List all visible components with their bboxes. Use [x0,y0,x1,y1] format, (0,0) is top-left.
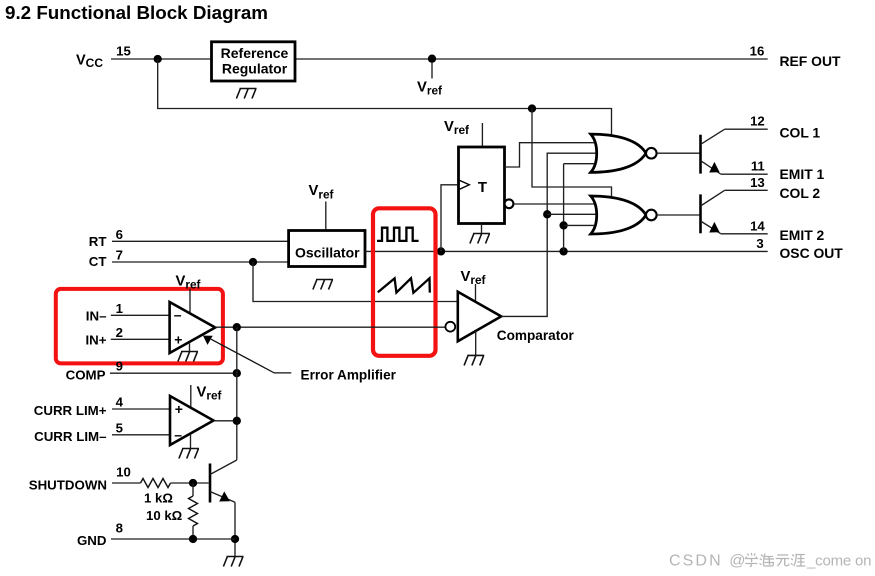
node base junction [189,479,197,487]
comparator input bubble [445,322,455,332]
svg-text:7: 7 [116,248,123,263]
wire CT branch to comparator input [253,262,458,302]
node error amp output [233,323,241,331]
node rail branch junction [528,104,536,112]
wire CURR LIM- [112,434,172,436]
transistor Q2 emitter arrow [709,222,719,233]
ground under flip-flop [470,234,490,244]
node osc to flip-flop clock [437,247,445,255]
svg-text:–: – [174,426,182,442]
svg-text:IN–: IN– [86,309,107,324]
transistor Q1 emitter [701,161,721,174]
resistor 1 kOhm [141,479,171,488]
wire osc up to flip-flop clock [441,185,459,252]
svg-text:+: + [175,401,183,417]
svg-text:10: 10 [116,465,131,480]
wire Qbar to lower NOR [513,203,596,205]
node curr lim output junction [233,417,241,425]
wire COL 2 pin 13 [725,189,768,191]
wire Vref into curr lim amp [190,385,192,408]
wire GND pin [111,538,235,540]
pointer line Error Amplifier [211,339,291,373]
svg-text:+: + [174,331,182,347]
wire Vref tap tick [431,62,433,79]
square wave symbol [377,228,419,241]
op-amp error amplifier [170,302,216,353]
node osc to lower gate [559,221,567,229]
red annotation box (error amplifier) [56,289,223,364]
svg-text:1 kΩ: 1 kΩ [144,490,173,505]
svg-text:12: 12 [750,114,765,129]
node CT branch [249,258,257,266]
svg-text:EMIT 2: EMIT 2 [780,227,825,243]
wire IN- to error amp [111,314,172,316]
svg-text:–: – [174,307,182,323]
svg-text:_come on: _come on [806,553,871,570]
wire rail branch to lower NOR gate top [532,109,612,198]
NOR gate lower bubble [646,210,657,221]
wire EMIT 1 pin 11 [721,173,768,175]
transistor Q3 emitter [210,492,235,503]
sawtooth wave symbol [378,278,430,293]
svg-text:Comparator: Comparator [497,328,575,343]
ground under comparator [464,355,484,365]
wire Vref into comparator [475,284,477,302]
transistor Q1 collector [701,129,725,144]
ground under flip-flop stem [481,224,483,234]
comparator triangle [458,292,501,342]
pointer arrowhead [203,336,213,345]
flip-flop Qbar bubble [505,199,514,208]
transistor Q3 emitter arrow [219,491,230,501]
wire COMP pin [110,372,237,374]
wire upper NOR to Q1 base [657,152,701,154]
NOR gate upper [591,134,646,172]
svg-text:COL 2: COL 2 [780,185,821,201]
resistor 10 kOhm [192,483,194,496]
svg-text:T: T [478,179,487,196]
wire Vref to flip-flop top [481,123,483,147]
T flip-flop U2 [459,147,505,224]
wire COL 1 pin 12 [725,128,768,130]
wire regulator output to REF OUT pin 16 [295,58,768,60]
ground stem curr lim amp [190,434,192,448]
flip-flop clock chevron [459,180,470,190]
svg-text:Oscillator: Oscillator [295,244,360,260]
red annotation box (oscillator waveforms) [373,208,436,355]
wire Vref to oscillator top [325,202,327,231]
node Vref tap [428,55,436,63]
transistor Q1 emitter arrow [709,162,719,173]
svg-text:9.2 Functional Block Diagram: 9.2 Functional Block Diagram [5,2,268,23]
wire lower NOR to Q2 base [657,214,701,216]
svg-text:COMP: COMP [66,367,106,382]
transistor Q2 emitter [701,221,721,234]
wire EMIT 2 pin 14 [721,233,768,235]
flip-flop Q output to upper NOR [505,143,597,167]
wire error amp output to comparator [215,326,446,328]
wire resistor to base node [171,482,209,484]
ground under regulator [236,89,256,99]
ground under curr lim amp [179,449,199,459]
svg-text:13: 13 [750,175,765,190]
svg-text:EMIT 1: EMIT 1 [780,166,825,182]
NOR gate lower [591,196,646,234]
svg-text:VCC: VCC [76,53,103,71]
svg-text:RT: RT [89,234,107,249]
wire Vref into error amp [189,289,191,314]
svg-text:CT: CT [89,254,107,269]
svg-text:5: 5 [116,420,123,435]
op-amp current limit amplifier [170,396,214,445]
wire osc branch to upper NOR input [564,163,596,165]
oscillator block [289,231,365,267]
svg-text:IN+: IN+ [85,333,106,348]
ground under error amp [178,352,198,362]
ground stem comparator [475,331,477,355]
wire curr lim output [214,420,237,422]
node VCC junction [154,55,162,63]
wire CT to oscillator [112,261,289,263]
wire emitter down to GND line [234,502,236,556]
wire IN+ to error amp [111,338,172,340]
svg-text:OSC OUT: OSC OUT [780,245,844,261]
svg-text:Reference: Reference [221,45,289,61]
svg-text:SHUTDOWN: SHUTDOWN [29,478,107,493]
wire VCC junction down to gate rail [158,59,612,135]
svg-text:15: 15 [116,44,131,59]
wire RT to oscillator [112,240,289,242]
svg-text:CSDN @: CSDN @ [669,553,748,570]
node 10k bottom junction [189,535,197,543]
svg-text:16: 16 [750,43,765,58]
wire comparator branch to lower NOR input [547,213,596,215]
svg-text:14: 14 [750,218,765,233]
wire osc blanking vertical [563,164,565,252]
node emitter GND junction [231,535,239,543]
wire comparator output up to gates [501,153,596,316]
ground under oscillator [313,280,333,290]
svg-text:9: 9 [116,359,123,374]
svg-text:CURR LIM+: CURR LIM+ [34,403,107,418]
svg-text:10 kΩ: 10 kΩ [146,508,183,523]
reference regulator U1 [212,42,296,81]
node osc blanking branch [559,247,567,255]
svg-text:GND: GND [77,533,107,548]
transistor Q1 base bar [699,135,702,174]
svg-text:4: 4 [116,395,124,410]
wire oscillator output / OSC OUT pin 3 [365,250,768,252]
svg-text:6: 6 [116,227,123,242]
ground below emitter [223,557,243,567]
transistor Q3 base bar [209,464,212,503]
wire osc branch to lower NOR input [564,224,596,226]
svg-text:11: 11 [751,159,765,174]
svg-text:REF OUT: REF OUT [780,53,841,69]
node comparator to lower gate [543,210,551,218]
svg-text:COL 1: COL 1 [780,124,821,140]
node COMP junction [233,369,241,377]
svg-text:1: 1 [116,301,123,316]
transistor Q2 base bar [699,194,702,233]
wire vertical rail from error amp output down [236,327,238,460]
svg-text:2: 2 [116,325,123,340]
svg-text:Regulator: Regulator [222,61,288,77]
wire CURR LIM+ [112,408,172,410]
svg-text:CURR LIM–: CURR LIM– [34,429,106,444]
NOR gate upper bubble [646,148,657,159]
svg-text:3: 3 [756,236,763,251]
transistor Q2 collector [701,190,725,206]
wire SHUTDOWN to resistor [112,482,141,484]
ground under error amp stem [189,344,191,352]
transistor Q3 collector [210,460,237,475]
svg-text:Error Amplifier: Error Amplifier [301,367,397,382]
svg-text:8: 8 [116,521,123,536]
wire VCC pin15 to regulator [111,58,212,60]
